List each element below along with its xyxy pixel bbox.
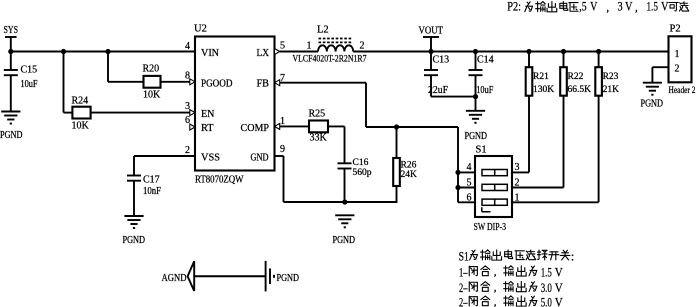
svg-text:V: V [555, 294, 564, 307]
pin 4 VIN label [185, 41, 220, 59]
svg-text:2: 2 [515, 177, 520, 188]
svg-text:R21: R21 [533, 72, 549, 82]
svg-text:6: 6 [467, 192, 472, 203]
svg-text:V: V [661, 0, 669, 14]
svg-text:10nF: 10nF [143, 186, 161, 197]
svg-text:3.0: 3.0 [541, 280, 552, 295]
svg-text:5: 5 [467, 177, 472, 188]
svg-text:1: 1 [307, 41, 312, 52]
power port SYS [4, 25, 19, 52]
svg-text:4: 4 [185, 41, 190, 52]
resistor R22 66.5K [560, 52, 591, 188]
svg-text:V: V [555, 280, 564, 295]
wire: R21 to S1 pin3 [512, 171, 529, 173]
svg-text:PGND: PGND [333, 235, 356, 246]
svg-text:V: V [555, 264, 564, 279]
svg-text:C13: C13 [433, 55, 450, 66]
node: junction R24 branch [61, 49, 66, 54]
svg-text:22uF: 22uF [428, 85, 448, 96]
svg-text:1.5: 1.5 [647, 0, 658, 14]
svg-text:C16: C16 [353, 158, 369, 168]
node: S1 pin5 junction [455, 185, 460, 190]
svg-text:COMP: COMP [241, 123, 270, 134]
node: C13/C14 ground junction [473, 94, 478, 99]
resistor R21 130K [526, 52, 555, 173]
svg-text:1: 1 [675, 49, 680, 60]
pin 6 RT label (stub) [185, 115, 214, 134]
note: S1 line 2 (2-closed 3.0V) [459, 280, 563, 295]
svg-text:V: V [625, 0, 633, 14]
node: junction R20 branch [105, 49, 110, 54]
pin numbers S1 right [515, 162, 520, 203]
capacitor C16 560p [328, 126, 372, 202]
svg-text:LX: LX [257, 48, 270, 59]
svg-text:C14: C14 [477, 55, 494, 66]
svg-text:P2: P2 [670, 24, 681, 35]
svg-text:33K: 33K [310, 133, 328, 144]
svg-text:PGND: PGND [277, 273, 300, 284]
pin 1 COMP label [241, 116, 286, 134]
capacitor C17 10nF [127, 156, 195, 216]
wire: R24 to EN pin 3 [91, 112, 191, 114]
svg-text:VSS: VSS [201, 153, 220, 164]
wire: AGND to PGND tie [194, 275, 265, 277]
svg-text:10uF: 10uF [476, 85, 493, 96]
note: S1 line 1 (1-closed 1.5V) [459, 264, 563, 279]
note: top-right P2 output voltage annotation [507, 0, 689, 14]
svg-text:2: 2 [185, 145, 190, 156]
svg-text:C17: C17 [143, 175, 160, 186]
svg-text:L2: L2 [317, 25, 329, 36]
note: S1 selection title line [459, 248, 575, 263]
svg-text:1–: 1– [459, 264, 468, 279]
pin 2 VSS label [185, 145, 220, 164]
node: R23 rail junction [596, 49, 601, 54]
wire: L2 to P2 rail [353, 51, 668, 53]
inductor L2 VLCF4020T-2R2N1R7 [293, 25, 367, 65]
svg-text:VIN: VIN [201, 48, 220, 59]
ground PGND (P2) [641, 83, 664, 110]
svg-text:VOUT: VOUT [419, 26, 444, 37]
svg-text::: : [571, 248, 575, 263]
svg-text:1: 1 [280, 116, 285, 127]
capacitor C15 10uF [4, 52, 38, 112]
node: ground bus junction [342, 199, 347, 204]
wire: SYS rail to VIN [11, 51, 195, 53]
svg-text:PGND: PGND [123, 235, 146, 246]
svg-text:2: 2 [675, 64, 680, 75]
svg-text:R25: R25 [309, 109, 326, 120]
svg-text:FB: FB [257, 79, 270, 90]
svg-text:SYS: SYS [4, 25, 19, 36]
wire: R20 to PGOOD pin 8 [161, 81, 191, 83]
node: C14 rail junction [473, 49, 478, 54]
svg-text:PGND: PGND [0, 130, 23, 141]
pin numbers S1 left [467, 162, 472, 203]
svg-text:R23: R23 [603, 72, 619, 82]
svg-text:R24: R24 [72, 96, 89, 107]
ground PGND (U2 GND) [333, 215, 356, 246]
pin 8 PGOOD label [185, 71, 233, 90]
svg-text:5: 5 [280, 41, 285, 52]
connector P2 Header 2 [669, 24, 696, 97]
svg-text:130K: 130K [533, 85, 554, 95]
svg-text:3: 3 [618, 0, 623, 14]
svg-text:1.5: 1.5 [541, 264, 552, 279]
svg-text:24K: 24K [401, 170, 418, 180]
svg-text:R20: R20 [143, 64, 160, 75]
svg-text:PGND: PGND [465, 131, 488, 142]
svg-text:RT8070ZQW: RT8070ZQW [195, 175, 244, 186]
node: junction SYS/C15 [8, 49, 13, 54]
resistor R23 21K [595, 52, 619, 203]
node: S1 pin4 junction [455, 170, 460, 175]
resistor R25 33K [280, 109, 328, 144]
svg-text:560p: 560p [353, 168, 372, 178]
IC U2 RT8070ZQW body [194, 24, 275, 186]
wire: R22 to S1 pin2 [512, 187, 564, 189]
switch S1 SW DIP-3 [474, 145, 513, 234]
svg-text:9: 9 [280, 144, 285, 155]
wire: P2 pin2 to ground [652, 67, 668, 83]
svg-text:10K: 10K [143, 90, 161, 101]
svg-text:21K: 21K [603, 85, 620, 95]
resistor R26 24K [393, 127, 417, 202]
wire: LX to L2 [280, 51, 318, 53]
pin 9 GND label [251, 144, 286, 164]
svg-text:10uF: 10uF [21, 79, 38, 90]
svg-text:VLCF4020T-2R2N1R7: VLCF4020T-2R2N1R7 [293, 55, 367, 65]
svg-text:1: 1 [515, 192, 520, 203]
ground PGND (C13 C14) [465, 111, 488, 142]
svg-text:P2:: P2: [507, 0, 521, 14]
ground PGND (tie, rotated bars) [266, 261, 299, 292]
ground PGND (C17) [123, 216, 146, 246]
svg-text:2: 2 [360, 41, 365, 52]
node: R21 rail junction [526, 49, 531, 54]
svg-text:S1: S1 [459, 248, 469, 263]
pin 7 FB label [257, 73, 286, 90]
power port VOUT [419, 26, 444, 52]
svg-text:U2: U2 [194, 24, 207, 35]
pin 5 LX label [257, 41, 286, 60]
svg-text:SW DIP-3: SW DIP-3 [474, 222, 507, 233]
resistor R20 10K [108, 52, 161, 101]
wire: FB to feedback node [280, 83, 458, 127]
note: S1 line 3 (2-closed 5.0V) [459, 294, 563, 307]
svg-text:RT: RT [201, 123, 214, 134]
svg-text:5.0: 5.0 [541, 294, 552, 307]
svg-text:AGND: AGND [162, 273, 187, 284]
svg-text:2–: 2– [459, 294, 468, 307]
pin 3 EN label [185, 101, 215, 120]
svg-text:R22: R22 [568, 72, 584, 82]
ground PGND (C15) [0, 112, 23, 142]
svg-text:3: 3 [515, 162, 520, 173]
svg-text:S1: S1 [476, 145, 487, 156]
node: R22 rail junction [561, 49, 566, 54]
svg-text:,5: ,5 [579, 0, 586, 14]
node: VOUT junction [428, 49, 433, 54]
svg-text:PGOOD: PGOOD [201, 79, 233, 90]
svg-text:10K: 10K [72, 121, 90, 132]
svg-text:Header 2: Header 2 [669, 86, 696, 96]
svg-text:4: 4 [467, 162, 472, 173]
svg-text:V: V [590, 0, 598, 14]
svg-text:C15: C15 [21, 65, 38, 76]
wire: GND pin 9 to ground bus [275, 156, 398, 202]
svg-text:PGND: PGND [641, 99, 664, 110]
ground AGND (triangle port) [162, 261, 195, 291]
capacitor C14 10uF [469, 52, 494, 111]
node: FB / R26 junction [394, 124, 399, 129]
svg-text:GND: GND [251, 153, 269, 164]
svg-text:2–: 2– [459, 280, 468, 295]
wire: FB node down S1 left pins [458, 127, 475, 202]
svg-text:66.5K: 66.5K [568, 85, 592, 95]
resistor R24 10K [64, 52, 91, 132]
capacitor C13 22uF [424, 52, 476, 97]
wire: R23 to S1 pin1 [512, 201, 599, 203]
svg-text:EN: EN [201, 109, 215, 120]
